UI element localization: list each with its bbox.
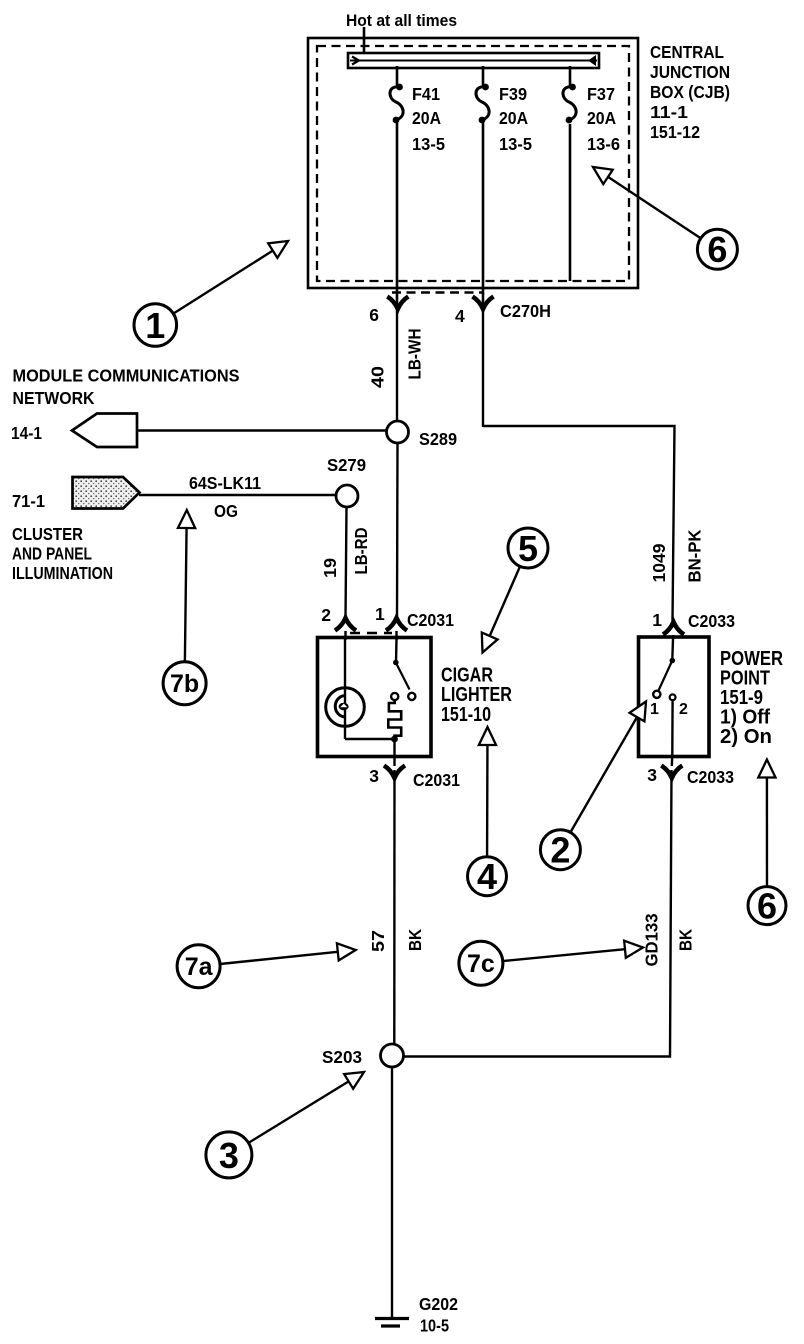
svg-text:BK: BK xyxy=(405,929,425,951)
svg-text:6: 6 xyxy=(369,305,379,325)
svg-text:13-5: 13-5 xyxy=(499,134,532,154)
svg-text:F41: F41 xyxy=(412,84,440,104)
svg-text:71-1: 71-1 xyxy=(12,491,45,511)
svg-text:57: 57 xyxy=(368,930,388,952)
svg-text:LB-RD: LB-RD xyxy=(351,528,371,575)
svg-text:C2033: C2033 xyxy=(688,611,735,631)
svg-text:11-1: 11-1 xyxy=(650,102,688,122)
svg-text:13-6: 13-6 xyxy=(587,134,620,154)
svg-text:3: 3 xyxy=(219,1135,239,1176)
svg-text:6: 6 xyxy=(707,229,727,270)
svg-text:C2031: C2031 xyxy=(407,610,454,630)
svg-text:7b: 7b xyxy=(170,670,199,698)
svg-text:20A: 20A xyxy=(499,108,528,128)
svg-text:20A: 20A xyxy=(412,108,441,128)
svg-text:4: 4 xyxy=(455,306,465,326)
svg-text:MODULE COMMUNICATIONS: MODULE COMMUNICATIONS xyxy=(13,366,240,386)
svg-text:S289: S289 xyxy=(419,429,457,449)
svg-text:1: 1 xyxy=(652,610,662,630)
svg-text:20A: 20A xyxy=(587,108,616,128)
svg-text:3: 3 xyxy=(647,765,657,785)
svg-text:1: 1 xyxy=(650,701,659,718)
svg-text:F37: F37 xyxy=(587,84,615,104)
svg-text:GD133: GD133 xyxy=(642,913,662,966)
svg-text:151-10: 151-10 xyxy=(441,704,491,726)
svg-text:LIGHTER: LIGHTER xyxy=(441,684,512,706)
svg-text:AND PANEL: AND PANEL xyxy=(12,544,92,564)
svg-text:1: 1 xyxy=(375,604,385,624)
svg-text:BK: BK xyxy=(676,929,696,951)
svg-text:S203: S203 xyxy=(322,1047,362,1067)
svg-text:OG: OG xyxy=(214,501,238,521)
svg-text:10-5: 10-5 xyxy=(420,1316,449,1336)
svg-text:13-5: 13-5 xyxy=(412,134,445,154)
svg-text:JUNCTION: JUNCTION xyxy=(650,62,730,82)
svg-text:NETWORK: NETWORK xyxy=(13,388,95,408)
svg-text:7c: 7c xyxy=(467,950,495,978)
svg-text:C2031: C2031 xyxy=(413,770,460,790)
svg-text:5: 5 xyxy=(518,528,538,569)
svg-text:2: 2 xyxy=(679,701,688,718)
svg-text:S279: S279 xyxy=(327,455,366,475)
svg-text:3: 3 xyxy=(369,766,379,786)
svg-text:CENTRAL: CENTRAL xyxy=(650,42,724,62)
svg-text:BOX (CJB): BOX (CJB) xyxy=(650,82,730,102)
svg-text:1049: 1049 xyxy=(649,543,669,582)
svg-text:C2033: C2033 xyxy=(687,767,734,787)
svg-text:CLUSTER: CLUSTER xyxy=(12,524,83,544)
svg-text:151-12: 151-12 xyxy=(650,122,700,142)
svg-text:BN-PK: BN-PK xyxy=(685,529,705,582)
svg-text:7a: 7a xyxy=(185,953,214,981)
svg-text:2: 2 xyxy=(321,605,331,625)
svg-text:LB-WH: LB-WH xyxy=(405,329,425,380)
svg-text:40: 40 xyxy=(368,366,388,388)
svg-text:Hot at all times: Hot at all times xyxy=(346,11,457,30)
svg-text:2: 2 xyxy=(550,830,570,871)
svg-text:ILLUMINATION: ILLUMINATION xyxy=(12,563,113,583)
svg-text:1: 1 xyxy=(145,305,165,346)
svg-text:2) On: 2) On xyxy=(720,726,772,748)
svg-text:19: 19 xyxy=(320,558,340,578)
svg-text:4: 4 xyxy=(477,856,497,897)
svg-text:G202: G202 xyxy=(419,1294,458,1314)
svg-text:14-1: 14-1 xyxy=(11,423,42,443)
svg-text:64S-LK11: 64S-LK11 xyxy=(189,473,261,493)
svg-text:6: 6 xyxy=(757,885,777,926)
svg-text:F39: F39 xyxy=(499,84,527,104)
svg-text:C270H: C270H xyxy=(500,301,551,321)
